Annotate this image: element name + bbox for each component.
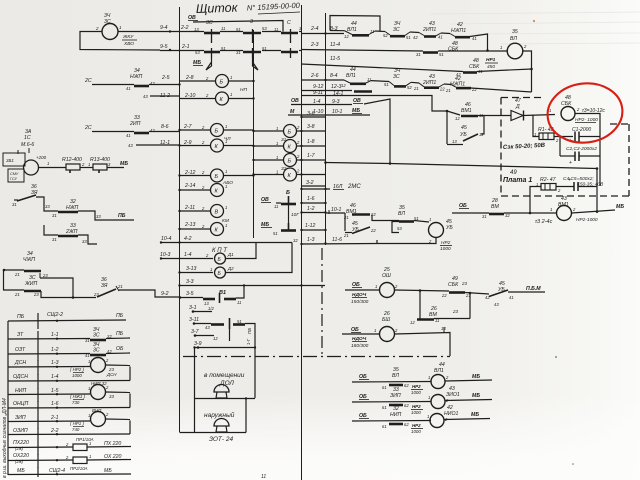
svg-text:33: 33 bbox=[109, 394, 114, 399]
wire to ПБМ bbox=[508, 291, 545, 293]
svg-text:730: 730 bbox=[72, 400, 80, 405]
wire ВМ right bbox=[434, 318, 470, 320]
dashed box left bbox=[500, 98, 502, 197]
contact 35 ВЛ 51/53 bbox=[399, 220, 414, 223]
svg-text:1-Г: 1-Г bbox=[246, 338, 251, 345]
svg-text:51: 51 bbox=[406, 35, 411, 40]
svg-text:2ИП: 2ИП bbox=[129, 121, 141, 127]
lamp 35 ВЛ bbox=[507, 43, 523, 59]
row lamp Б2 bbox=[253, 159, 284, 161]
svg-text:8-6: 8-6 bbox=[161, 124, 169, 130]
svg-text:ГСУ: ГСУ bbox=[10, 177, 17, 181]
svg-text:2ЖП: 2ЖП bbox=[65, 229, 78, 235]
resistor R12 bbox=[66, 164, 80, 170]
svg-text:ПХ 220: ПХ 220 bbox=[104, 441, 121, 447]
wire R13 to МБ bbox=[107, 167, 124, 169]
svg-text:31: 31 bbox=[12, 202, 17, 207]
lamp ОШ bbox=[380, 283, 395, 298]
wire Д1 right bbox=[226, 243, 257, 259]
stub 3-6 bbox=[301, 116, 325, 118]
svg-text:( НР1 ): ( НР1 ) bbox=[70, 421, 84, 426]
svg-text:9-5: 9-5 bbox=[160, 44, 168, 50]
svg-text:НР2: НР2 bbox=[412, 384, 421, 389]
stub 3-2 bbox=[301, 185, 325, 187]
wire mid bbox=[465, 293, 489, 295]
contact 42 НЖП1 bbox=[450, 34, 455, 37]
wire lamp ВНП right bbox=[106, 418, 131, 421]
svg-text:31: 31 bbox=[236, 50, 241, 55]
svg-text:τ3 2-4с: τ3 2-4с bbox=[535, 219, 553, 225]
wire R12 to R13 bbox=[80, 167, 93, 169]
bus vertical x253 bbox=[253, 30, 255, 238]
svg-text:МБ: МБ bbox=[472, 393, 480, 399]
svg-text:Б: Б bbox=[288, 130, 292, 136]
svg-text:23: 23 bbox=[93, 292, 99, 297]
svg-text:11-6: 11-6 bbox=[332, 237, 342, 243]
svg-text:2-7: 2-7 bbox=[183, 124, 193, 130]
row 1-5 bbox=[8, 393, 90, 396]
svg-text:1: 1 bbox=[429, 217, 431, 222]
wire lower right bbox=[245, 324, 255, 399]
wire pair to ВЛ contact bbox=[372, 220, 399, 222]
svg-text:9-4: 9-4 bbox=[160, 25, 168, 31]
svg-text:2С: 2С bbox=[84, 78, 92, 84]
dash-dot vertical bbox=[321, 248, 323, 356]
vertical x560 bbox=[559, 137, 561, 157]
svg-text:КМ: КМ bbox=[222, 218, 229, 224]
svg-text:ЗТ: ЗТ bbox=[17, 332, 24, 338]
wire D mid2 bbox=[411, 81, 419, 84]
lamp Д2 bbox=[215, 267, 226, 278]
svg-text:НР2: НР2 bbox=[412, 423, 421, 428]
svg-text:51: 51 bbox=[236, 27, 241, 32]
wire row2 bbox=[160, 50, 204, 52]
lamp circle left bbox=[24, 160, 39, 175]
svg-text:1: 1 bbox=[88, 413, 90, 418]
contact 32 НЖП bbox=[58, 211, 78, 214]
svg-text:33: 33 bbox=[45, 204, 50, 209]
svg-text:1-2: 1-2 bbox=[307, 206, 315, 212]
resistor R2 bbox=[541, 184, 556, 191]
svg-text:43: 43 bbox=[494, 302, 499, 307]
wire y297 long bbox=[41, 291, 96, 298]
svg-text:42: 42 bbox=[107, 349, 112, 354]
svg-text:1000: 1000 bbox=[72, 373, 82, 378]
vertical x533 bbox=[533, 115, 539, 137]
wire C to vertical bbox=[477, 69, 532, 72]
svg-text:42: 42 bbox=[413, 35, 418, 40]
svg-text:+: + bbox=[569, 160, 572, 166]
svg-text:МБ: МБ bbox=[120, 161, 128, 167]
svg-text:180/300: 180/300 bbox=[351, 343, 369, 349]
svg-text:11: 11 bbox=[274, 204, 278, 209]
dashed box bottom bbox=[501, 195, 629, 197]
svg-text:1: 1 bbox=[550, 207, 552, 212]
svg-text:1-6: 1-6 bbox=[307, 196, 315, 202]
svg-text:в помещении: в помещении bbox=[204, 372, 245, 379]
dashed box right bbox=[628, 124, 630, 196]
contact 46 ВМ1 bbox=[447, 111, 460, 115]
contact 48 СБК C bbox=[463, 71, 477, 74]
svg-text:1: 1 bbox=[210, 267, 212, 272]
speck orange bbox=[533, 20, 535, 22]
box СМУ bbox=[8, 169, 24, 182]
svg-text:21: 21 bbox=[413, 86, 419, 91]
svg-text:11: 11 bbox=[221, 26, 225, 31]
svg-text:ОХ 220: ОХ 220 bbox=[104, 454, 122, 460]
svg-text:22: 22 bbox=[441, 293, 447, 298]
wire R1 to C1 bbox=[554, 136, 573, 138]
junction dots bus x179 bbox=[178, 83, 180, 230]
junction dots ladder bbox=[56, 320, 58, 476]
svg-text:31: 31 bbox=[482, 214, 487, 219]
svg-text:Плата 1: Плата 1 bbox=[503, 177, 532, 184]
svg-text:1: 1 bbox=[428, 375, 430, 380]
switch 45 УБ bbox=[447, 144, 463, 146]
contact 3 knife bbox=[243, 32, 261, 35]
svg-text:12: 12 bbox=[455, 116, 460, 121]
box 3Б1 bbox=[3, 153, 25, 166]
svg-text:СБК: СБК bbox=[561, 101, 572, 107]
svg-text:41: 41 bbox=[438, 35, 443, 40]
svg-text:НЖП1: НЖП1 bbox=[451, 28, 466, 34]
svg-text:Щиток: Щиток bbox=[196, 1, 239, 16]
svg-text:10-3: 10-3 bbox=[160, 252, 170, 258]
svg-text:2: 2 bbox=[95, 26, 99, 31]
svg-text:1: 1 bbox=[374, 328, 376, 333]
svg-text:ЧЛ: ЧЛ bbox=[224, 136, 231, 142]
bus ticks x38 bbox=[37, 313, 39, 329]
red annotation ellipse bbox=[544, 79, 626, 147]
row СЩ2-2 bbox=[8, 320, 126, 321]
svg-text:1: 1 bbox=[276, 141, 278, 146]
wire row ЗИП left bbox=[352, 401, 431, 404]
contact row2 c bbox=[281, 51, 298, 54]
svg-text:ОВ: ОВ bbox=[291, 98, 299, 104]
svg-text:(2ж): (2ж) bbox=[15, 446, 24, 451]
svg-text:НР2-1000: НР2-1000 bbox=[576, 217, 598, 223]
svg-text:740: 740 bbox=[72, 427, 80, 432]
svg-text:51: 51 bbox=[221, 46, 226, 51]
svg-text:1: 1 bbox=[276, 170, 278, 175]
wire row G bbox=[288, 114, 370, 116]
svg-text:ХВО: ХВО bbox=[123, 41, 134, 47]
svg-text:С: С bbox=[287, 20, 291, 26]
svg-text:22: 22 bbox=[439, 87, 445, 92]
svg-text:СБК: СБК bbox=[448, 282, 459, 288]
svg-text:2-2: 2-2 bbox=[50, 428, 59, 434]
resistor R1 bbox=[539, 133, 554, 140]
svg-text:43: 43 bbox=[205, 325, 210, 330]
svg-text:12: 12 bbox=[341, 83, 346, 88]
svg-text:31: 31 bbox=[52, 213, 57, 218]
svg-text:3С: 3С bbox=[393, 27, 400, 33]
wire to bus b bbox=[149, 131, 179, 133]
wire step down bbox=[78, 211, 134, 220]
svg-text:ДСН: ДСН bbox=[106, 372, 117, 377]
wire row D bbox=[301, 79, 344, 81]
lamp ВМ1 bbox=[557, 206, 572, 221]
svg-text:НИП: НИП bbox=[15, 388, 26, 394]
lamp БШ bbox=[380, 327, 395, 342]
wire row ВЛ1 right bbox=[445, 380, 492, 381]
svg-text:51: 51 bbox=[273, 231, 278, 236]
svg-text:1: 1 bbox=[534, 132, 536, 137]
switch 36 3Я bbox=[17, 195, 36, 201]
svg-text:23: 23 bbox=[452, 309, 459, 314]
svg-text:11: 11 bbox=[237, 300, 241, 305]
svg-text:41: 41 bbox=[126, 133, 131, 138]
svg-text:10Г: 10Г bbox=[291, 212, 299, 218]
svg-text:12: 12 bbox=[344, 34, 349, 39]
contact 34 ЧЖП bbox=[24, 270, 41, 273]
svg-text:31: 31 bbox=[281, 137, 287, 143]
svg-text:21: 21 bbox=[445, 88, 451, 93]
speck dark bbox=[572, 463, 574, 465]
svg-text:42: 42 bbox=[150, 81, 155, 86]
svg-text:53: 53 bbox=[195, 50, 200, 55]
svg-text:3-11: 3-11 bbox=[189, 317, 199, 323]
stub 1-6 bbox=[301, 202, 325, 204]
svg-text:11-5: 11-5 bbox=[330, 56, 340, 62]
resistor body marks bbox=[69, 170, 71, 173]
wire lamp ВЛ right loop bbox=[523, 51, 532, 92]
wire y297 bbox=[180, 297, 203, 299]
svg-text:42: 42 bbox=[485, 295, 490, 300]
svg-text:21: 21 bbox=[14, 292, 20, 297]
svg-text:ЖИП: ЖИП bbox=[24, 281, 37, 287]
lamp НИО1 bbox=[430, 414, 444, 428]
svg-text:НИП: НИП bbox=[390, 412, 401, 418]
capacitor С1 bbox=[574, 132, 576, 142]
wire left vertical bbox=[3, 270, 5, 290]
svg-text:ОЗТ: ОЗТ bbox=[15, 347, 26, 353]
wire A mid2 bbox=[410, 31, 419, 34]
wire 2МС row bbox=[301, 188, 330, 190]
svg-text:3-5: 3-5 bbox=[186, 291, 194, 297]
svg-text:1: 1 bbox=[276, 126, 278, 131]
svg-text:1С: 1С bbox=[24, 135, 31, 141]
wires C2C3 bbox=[560, 155, 575, 157]
svg-text:11-1: 11-1 bbox=[160, 140, 170, 146]
row 1-6 bbox=[8, 407, 130, 410]
svg-text:62: 62 bbox=[404, 383, 409, 388]
svg-text:ВЛ1: ВЛ1 bbox=[434, 368, 444, 374]
svg-text:ПБ: ПБ bbox=[116, 331, 124, 337]
wire left bbox=[452, 212, 489, 214]
svg-text:4-2: 4-2 bbox=[184, 236, 192, 242]
lamp ВЛ1 bbox=[431, 375, 445, 389]
contact 26 ВМ bbox=[417, 318, 434, 321]
svg-text:2С: 2С bbox=[84, 125, 92, 131]
wire БШ left bbox=[342, 333, 379, 335]
svg-text:11-2: 11-2 bbox=[160, 93, 170, 99]
svg-text:3Б1: 3Б1 bbox=[6, 158, 14, 163]
contact 28 ВМ bbox=[489, 213, 504, 216]
svg-text:1000: 1000 bbox=[440, 246, 451, 252]
svg-text:3С: 3С bbox=[104, 19, 111, 25]
row 1-2 bbox=[8, 353, 90, 356]
lamp ВНП bbox=[91, 412, 106, 427]
svg-text:53: 53 bbox=[397, 226, 402, 231]
contact 44 ВЛ1 D bbox=[344, 80, 350, 83]
svg-text:31: 31 bbox=[416, 52, 421, 57]
contact С knife bbox=[281, 32, 298, 35]
flag symbol b bbox=[253, 58, 259, 70]
wire bell row 1 bbox=[195, 398, 256, 400]
svg-text:2-1: 2-1 bbox=[50, 415, 59, 421]
contact row2 b bbox=[243, 51, 261, 54]
row 1-4 bbox=[8, 380, 130, 383]
junction dots bus301 bbox=[300, 116, 326, 287]
svg-text:1-4: 1-4 bbox=[184, 252, 192, 258]
wire diode to lamp bbox=[524, 115, 556, 116]
lamp НИП bbox=[91, 385, 106, 400]
svg-text:R12-400: R12-400 bbox=[62, 157, 82, 163]
fuse ПР2 bbox=[73, 457, 87, 464]
svg-text:52: 52 bbox=[407, 85, 412, 90]
svg-text:43: 43 bbox=[128, 143, 133, 148]
contact row2 a bbox=[204, 51, 220, 54]
svg-text:1-1: 1-1 bbox=[51, 332, 59, 338]
svg-text:(2ж): (2ж) bbox=[15, 459, 24, 464]
svg-text:10-4: 10-4 bbox=[161, 236, 171, 242]
switch 36 3Я second bbox=[97, 289, 116, 297]
svg-text:31: 31 bbox=[52, 237, 57, 242]
row 2-2 bbox=[8, 433, 130, 436]
svg-text:Б: Б bbox=[215, 174, 219, 180]
svg-text:1: 1 bbox=[89, 454, 91, 459]
contact 48 СБК B bbox=[423, 51, 438, 54]
contact 33 2ИП bbox=[134, 132, 149, 135]
wire to lamp ВМ1 bbox=[504, 212, 556, 214]
svg-text:21: 21 bbox=[14, 272, 20, 277]
wire row НИП left bbox=[352, 420, 431, 423]
wire lamp to R12 bbox=[39, 167, 67, 169]
contact В1 top bbox=[203, 298, 215, 301]
svg-text:( НЖ1 ): ( НЖ1 ) bbox=[70, 394, 86, 399]
svg-text:1: 1 bbox=[276, 155, 278, 160]
wire lamp left lead bbox=[80, 32, 160, 51]
bell наружный bbox=[214, 419, 229, 426]
svg-text:ОДСН: ОДСН bbox=[13, 374, 28, 380]
svg-text:БШ: БШ bbox=[382, 317, 390, 323]
wire ОШ right bbox=[395, 290, 450, 291]
contact E1 bbox=[354, 90, 372, 93]
switch 45 УБ b bbox=[345, 232, 352, 234]
svg-text:8-4: 8-4 bbox=[330, 73, 338, 79]
svg-text:3-1: 3-1 bbox=[189, 305, 197, 311]
svg-text:1: 1 bbox=[500, 45, 502, 50]
svg-text:11: 11 bbox=[370, 29, 374, 34]
contact 34 НЖП bbox=[134, 85, 149, 88]
svg-text:СМУ: СМУ bbox=[10, 172, 19, 176]
dash-dot horizontal bbox=[183, 356, 450, 358]
stub 1-8 bbox=[301, 145, 325, 147]
wire row B bbox=[301, 50, 423, 52]
svg-text:21: 21 bbox=[343, 215, 349, 220]
svg-text:51: 51 bbox=[262, 46, 267, 51]
svg-text:ВМ1: ВМ1 bbox=[461, 108, 472, 114]
svg-text:1: 1 bbox=[225, 124, 227, 129]
svg-text:Б: Б bbox=[220, 80, 224, 86]
svg-text:11: 11 bbox=[261, 474, 266, 480]
wire ОВ feeder bbox=[193, 21, 283, 32]
svg-text:11: 11 bbox=[274, 27, 278, 32]
wire E2 drop bbox=[380, 96, 447, 112]
svg-text:ЧЖП: ЧЖП bbox=[23, 257, 35, 263]
svg-text:ВЛ1: ВЛ1 bbox=[346, 73, 356, 79]
svg-text:Д1: Д1 bbox=[227, 252, 234, 257]
svg-text:41: 41 bbox=[472, 36, 477, 41]
wire left stub 2 bbox=[3, 289, 24, 291]
svg-text:1: 1 bbox=[88, 359, 90, 364]
wire to bar1 bbox=[36, 197, 58, 211]
svg-text:3-7: 3-7 bbox=[191, 329, 200, 335]
switch 42/41 bbox=[489, 290, 508, 297]
svg-text:450: 450 bbox=[487, 64, 495, 70]
svg-text:М.6-6: М.6-6 bbox=[21, 142, 34, 148]
wire 2C row b bbox=[92, 131, 134, 133]
svg-text:3С: 3С bbox=[93, 348, 100, 354]
svg-text:ПБ: ПБ bbox=[17, 314, 25, 320]
svg-text:1: 1 bbox=[225, 169, 227, 174]
svg-text:1000: 1000 bbox=[411, 429, 421, 434]
svg-text:1: 1 bbox=[89, 441, 91, 446]
svg-text:11: 11 bbox=[367, 77, 371, 82]
svg-text:23: 23 bbox=[461, 281, 468, 286]
svg-text:53: 53 bbox=[262, 26, 267, 31]
svg-text:21: 21 bbox=[117, 284, 123, 289]
wire row1 bbox=[200, 31, 204, 33]
svg-text:9-2: 9-2 bbox=[161, 291, 169, 297]
svg-text:ЖКУ: ЖКУ bbox=[122, 34, 134, 40]
row 3-8 lamp Б bbox=[253, 130, 284, 132]
svg-text:Д2: Д2 bbox=[227, 266, 234, 271]
svg-text:ЗОТ- 24: ЗОТ- 24 bbox=[209, 436, 233, 443]
svg-text:61: 61 bbox=[382, 424, 387, 429]
svg-text:1000: 1000 bbox=[411, 410, 421, 415]
wire lamp ДСН right bbox=[106, 364, 131, 367]
vertical T lower stem bbox=[229, 329, 231, 341]
svg-text:32: 32 bbox=[505, 213, 510, 218]
fuse ПР1 bbox=[73, 444, 87, 451]
wire ОШ left bbox=[345, 289, 380, 291]
svg-text:51: 51 bbox=[237, 319, 242, 324]
svg-text:2-1: 2-1 bbox=[181, 44, 190, 50]
svg-text:23: 23 bbox=[42, 273, 48, 278]
svg-text:41: 41 bbox=[509, 295, 514, 300]
wire УБ lamp bottom bbox=[377, 238, 436, 244]
svg-text:В: В bbox=[215, 210, 219, 216]
svg-text:1-3: 1-3 bbox=[307, 237, 315, 243]
svg-text:ПБ: ПБ bbox=[116, 313, 124, 319]
svg-text:МБ: МБ bbox=[17, 468, 25, 474]
svg-text:1: 1 bbox=[427, 414, 429, 419]
svg-text:НР1: НР1 bbox=[486, 57, 496, 63]
svg-text:3С: 3С bbox=[393, 74, 400, 80]
wire left stub bbox=[3, 269, 24, 271]
wire D mid3 bbox=[444, 83, 451, 86]
svg-text:32: 32 bbox=[107, 334, 112, 339]
lamp ЗИО1 bbox=[431, 395, 445, 409]
wire A to drop bbox=[470, 34, 488, 50]
resistor R13 bbox=[93, 164, 107, 170]
svg-text:62: 62 bbox=[404, 422, 409, 427]
svg-text:35: 35 bbox=[512, 29, 518, 35]
svg-text:Б: Б bbox=[288, 159, 292, 165]
bus vertical x301 bbox=[301, 5, 303, 480]
